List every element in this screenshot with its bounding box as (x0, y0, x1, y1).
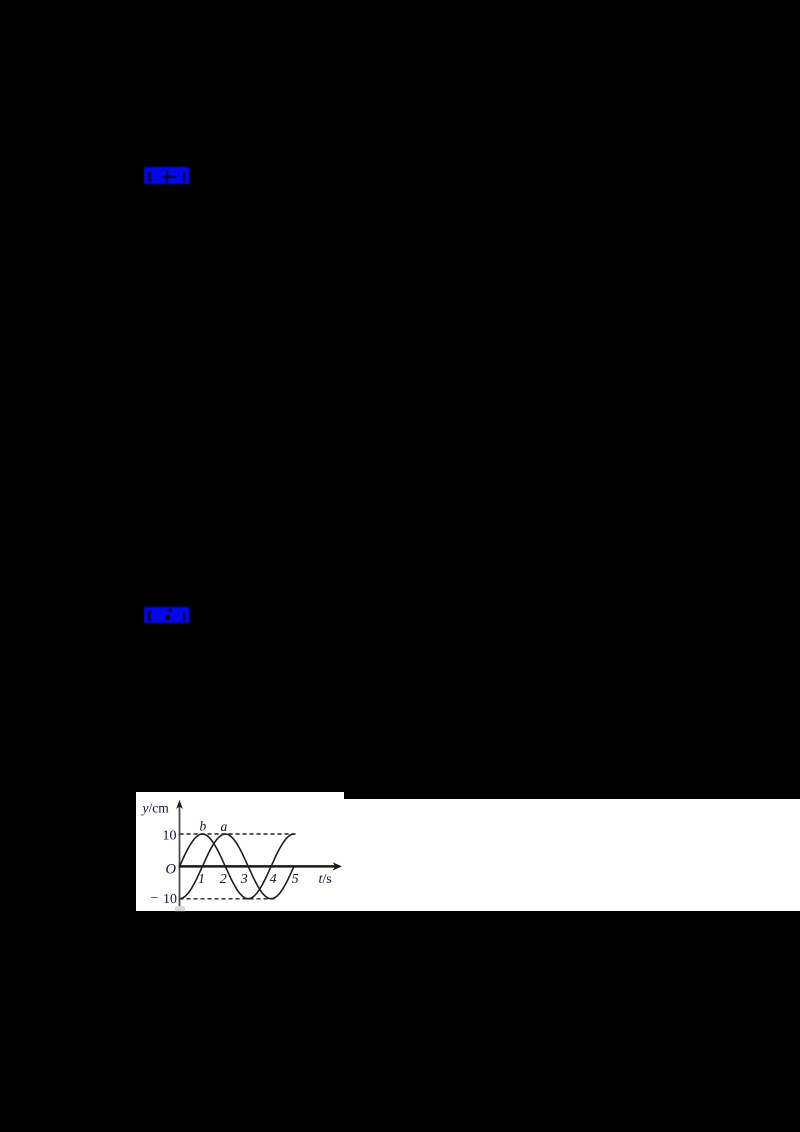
svg-text:1: 1 (198, 871, 205, 886)
white band right of chart image (344, 799, 800, 911)
svg-text:3: 3 (240, 871, 248, 886)
curve a : -10cos(pi t/2) (179, 834, 294, 899)
dashed line y=+10 (179, 833, 296, 835)
label1 bracket stroke left (148, 172, 150, 182)
label2 inner top notch (168, 609, 172, 612)
label1 bracket stroke right (183, 172, 185, 182)
svg-text:t/s: t/s (318, 872, 331, 887)
svg-text:−: − (150, 891, 158, 906)
label1 inner stroke mid vertical (166, 170, 168, 183)
svg-text:a: a (220, 818, 227, 833)
svg-text:b: b (199, 818, 206, 833)
svg-text:O: O (165, 861, 176, 877)
axis smudge at bottom of vertical axis (175, 906, 185, 911)
svg-text:2: 2 (220, 871, 227, 886)
svg-text:10: 10 (162, 828, 176, 843)
label2 bracket stroke right (183, 612, 185, 622)
label2 inner dot (165, 615, 170, 620)
horizontal axis (178, 865, 335, 868)
label2 bracket stroke left (148, 611, 150, 621)
curve b : 10sin(pi t/2) (179, 834, 294, 899)
chart image (y-t waveform graph) (136, 792, 344, 912)
svg-text:5: 5 (291, 871, 298, 886)
vertical axis arrowhead (176, 799, 183, 808)
horizontal axis arrowhead (332, 862, 341, 870)
vertical axis (178, 804, 180, 911)
svg-text:10: 10 (163, 892, 177, 907)
svg-text:4: 4 (269, 871, 276, 886)
svg-text:y/cm: y/cm (140, 800, 169, 815)
answer label 1 (blue 【答案】 blob) (144, 167, 189, 184)
answer label 2 (blue 【解析】 blob) (144, 607, 189, 623)
label1 inner stroke mid horizontal (162, 176, 176, 178)
dashed line y=-10 (179, 897, 276, 899)
